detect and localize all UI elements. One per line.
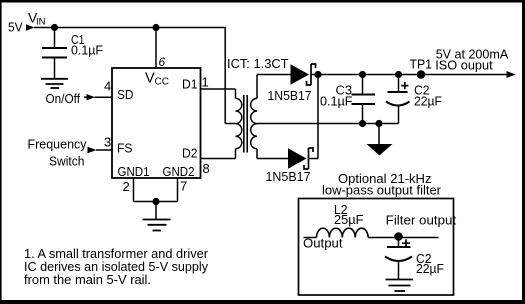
junction C3 bottom (359, 120, 366, 127)
ground filter (386, 280, 414, 292)
wire C1 top (54, 28, 56, 49)
ground ISO (triangle) (367, 144, 393, 156)
transformer T1 primary (236, 89, 242, 159)
capacitor C2 22uF polarized (386, 75, 442, 124)
svg-text:ISO ouput: ISO ouput (435, 58, 493, 73)
svg-text:Filter output: Filter output (386, 213, 457, 228)
junction VIN/VCC (152, 24, 159, 31)
wire secondary top to D3 (257, 74, 291, 76)
ground under IC (143, 220, 171, 231)
test point TP1 (417, 70, 426, 79)
svg-text:3: 3 (104, 135, 111, 150)
svg-text:8: 8 (203, 161, 210, 176)
junction output node (314, 71, 321, 78)
svg-text:1N5B17: 1N5B17 (268, 88, 312, 103)
node Frequency Switch input (28, 137, 97, 169)
wire D1 pin 1 (201, 88, 236, 90)
svg-text:4: 4 (104, 79, 111, 94)
capacitor C3 (320, 75, 375, 124)
junction C2 top (395, 71, 402, 78)
wire secondary bottom to D4 (257, 158, 288, 160)
note 1 (24, 246, 209, 287)
output arrow (507, 71, 516, 78)
svg-text:D1: D1 (182, 77, 198, 92)
wire VCC pin 6 (155, 28, 157, 69)
svg-text:1: 1 (202, 75, 209, 90)
wire return line (secondary center tap) (257, 123, 399, 125)
inductor L2 (317, 202, 369, 238)
junction C3 top (359, 71, 366, 78)
svg-text:1N5B17: 1N5B17 (266, 169, 311, 184)
diode D4 1N5B17 (bottom) (266, 148, 314, 184)
svg-text:22µF: 22µF (416, 261, 444, 276)
svg-text:0.1µF: 0.1µF (320, 94, 353, 109)
diode D3 1N5B17 (top) (268, 64, 316, 103)
wire FS pin 3 (96, 149, 112, 151)
filter box (299, 199, 454, 296)
wire VIN rail (34, 28, 225, 124)
svg-text:V: V (145, 71, 155, 87)
svg-text:D2: D2 (182, 146, 198, 161)
svg-text:from the main 5-V rail.: from the main 5-V rail. (24, 272, 151, 287)
wire filter input (304, 237, 317, 239)
wire primary center tap (225, 123, 235, 125)
svg-text:low-pass output filter: low-pass output filter (322, 183, 442, 198)
svg-text:2: 2 (123, 179, 130, 194)
IC U1 driver (112, 68, 201, 179)
node On/Off input (46, 91, 96, 106)
capacitor C2 (filter) 22uF polarized (385, 238, 444, 280)
svg-text:5V: 5V (8, 20, 23, 35)
svg-text:6: 6 (159, 55, 166, 69)
transformer T1 secondary (251, 75, 257, 159)
svg-text:SD: SD (117, 87, 134, 102)
wire filter output (368, 237, 438, 239)
wire D4 cathode (309, 158, 318, 160)
wire rectifier tie (317, 75, 319, 159)
svg-text:GND1: GND1 (118, 164, 150, 179)
svg-text:7: 7 (180, 179, 187, 194)
wire ISO ground drop (378, 124, 380, 145)
ground under C1 (41, 79, 68, 88)
junction ground bus (152, 198, 159, 205)
svg-text:IN: IN (36, 17, 46, 28)
junction ISO ground (375, 120, 382, 127)
svg-text:CC: CC (155, 77, 169, 88)
svg-text:ICT: 1.3CT: ICT: 1.3CT (227, 56, 289, 71)
wire GND1 pin 2 (133, 178, 135, 202)
junction VIN/C1 (51, 24, 58, 31)
svg-text:22µF: 22µF (414, 94, 442, 109)
svg-text:0.1µF: 0.1µF (71, 43, 103, 58)
transformer T1 core (244, 95, 247, 153)
svg-text:25µF: 25µF (334, 212, 364, 227)
svg-text:GND2: GND2 (163, 164, 195, 179)
wire D3 cathode to output node (312, 74, 319, 76)
svg-text:Output: Output (303, 236, 343, 251)
capacitor C1 (42, 32, 103, 58)
svg-text:FS: FS (117, 141, 133, 156)
svg-text:Switch: Switch (49, 154, 85, 169)
svg-text:On/Off: On/Off (46, 91, 81, 106)
wire D2 pin 8 (201, 158, 236, 160)
svg-text:TP1: TP1 (410, 57, 433, 72)
wire C1 bottom (54, 58, 56, 79)
wire output rail (318, 74, 514, 76)
wire ground bus (134, 202, 178, 220)
junction filter output (394, 232, 403, 241)
wire SD pin 4 (95, 96, 113, 98)
node VIN 5V input (8, 10, 46, 35)
wire GND2 pin 7 (177, 178, 179, 202)
svg-text:Frequency: Frequency (28, 137, 87, 152)
